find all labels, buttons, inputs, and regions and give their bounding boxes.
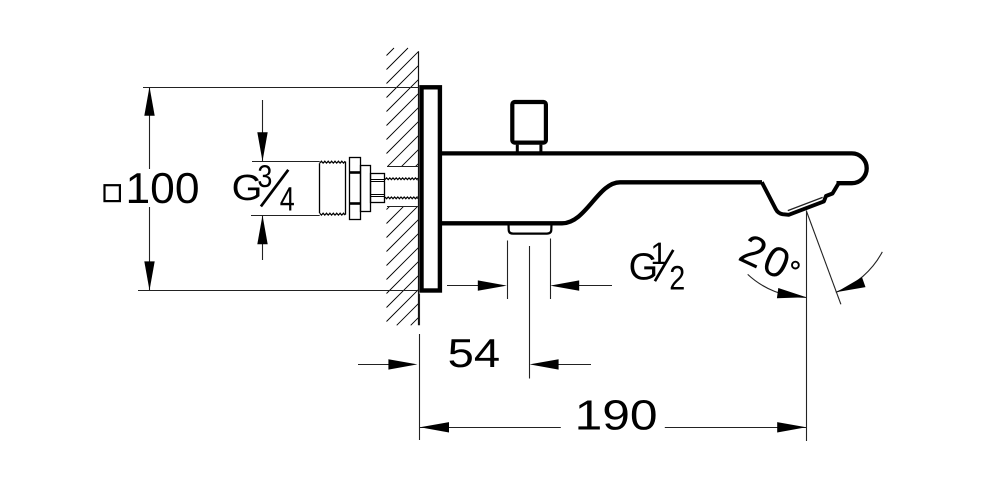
spout body top outline and end cap bbox=[441, 153, 867, 183]
diverter knob bbox=[512, 102, 546, 143]
wall hole boundary bottom bbox=[387, 206, 419, 208]
wall plate (escutcheon) bbox=[422, 87, 440, 290]
aerator face line bbox=[788, 197, 823, 210]
wall face line bbox=[418, 51, 420, 325]
dim 54 line tails bbox=[358, 364, 591, 366]
arrow dim100 top bbox=[144, 87, 154, 116]
svg-text:190: 190 bbox=[575, 391, 658, 438]
arrow G3/4 top bbox=[257, 132, 267, 161]
ext line below wall plate bbox=[419, 294, 421, 441]
spout body underside bbox=[441, 182, 762, 223]
arrow 54 left bbox=[388, 359, 417, 369]
dim 100 bottom boundary line bbox=[138, 290, 419, 292]
dim 190 line bbox=[420, 427, 806, 429]
svg-text:4: 4 bbox=[280, 180, 295, 218]
wall hatching upper bbox=[387, 48, 419, 166]
connector rear block bbox=[371, 174, 385, 203]
spout mouth outline bbox=[762, 182, 839, 215]
svg-text:20: 20 bbox=[732, 226, 798, 290]
arrow angle left bbox=[777, 288, 806, 298]
square symbol of dim 100 bbox=[105, 185, 120, 201]
threaded supply pipe upper thread bbox=[385, 178, 418, 180]
arrow 190 right bbox=[777, 422, 806, 432]
svg-text:100: 100 bbox=[126, 165, 200, 213]
arrow G3/4 bottom bbox=[257, 215, 267, 244]
arrow G1/2 left bbox=[478, 280, 507, 290]
G1/2 extension lines bbox=[508, 239, 551, 379]
flange seal band upper bbox=[350, 171, 361, 174]
dim G1/2 line and tails bbox=[447, 285, 612, 287]
flange seal band lower bbox=[350, 202, 361, 205]
connector flange bbox=[350, 158, 361, 220]
threaded supply pipe lower thread bbox=[385, 197, 418, 199]
svg-text:3: 3 bbox=[257, 158, 272, 194]
union nut knurled body bbox=[320, 161, 346, 163]
dim G3/4 top boundary bbox=[252, 161, 320, 163]
arrow 54 right bbox=[530, 359, 559, 369]
arrow dim100 bottom bbox=[144, 261, 154, 290]
dim G3/4 bottom boundary bbox=[251, 215, 320, 217]
wall hatching lower bbox=[387, 207, 419, 325]
dim 100 vertical line bbox=[149, 88, 151, 291]
arrow G1/2 right bbox=[550, 280, 579, 290]
svg-text:2: 2 bbox=[669, 260, 685, 298]
G1/2 boss under spout bbox=[509, 224, 552, 234]
slanted 20-degree line bbox=[806, 211, 841, 304]
angle arc left bbox=[748, 274, 807, 297]
ext line at spout mouth bbox=[806, 211, 808, 442]
arrow angle right bbox=[837, 277, 866, 292]
wall hole boundary top bbox=[387, 166, 419, 168]
connector middle plate bbox=[361, 166, 371, 212]
dim G3/4 tails bbox=[262, 100, 264, 260]
svg-text:54: 54 bbox=[448, 330, 501, 376]
dim 100 top boundary line bbox=[143, 87, 419, 89]
knob neck bbox=[517, 145, 541, 152]
arrow 190 left bbox=[420, 422, 449, 432]
angle arc right bbox=[836, 252, 883, 292]
